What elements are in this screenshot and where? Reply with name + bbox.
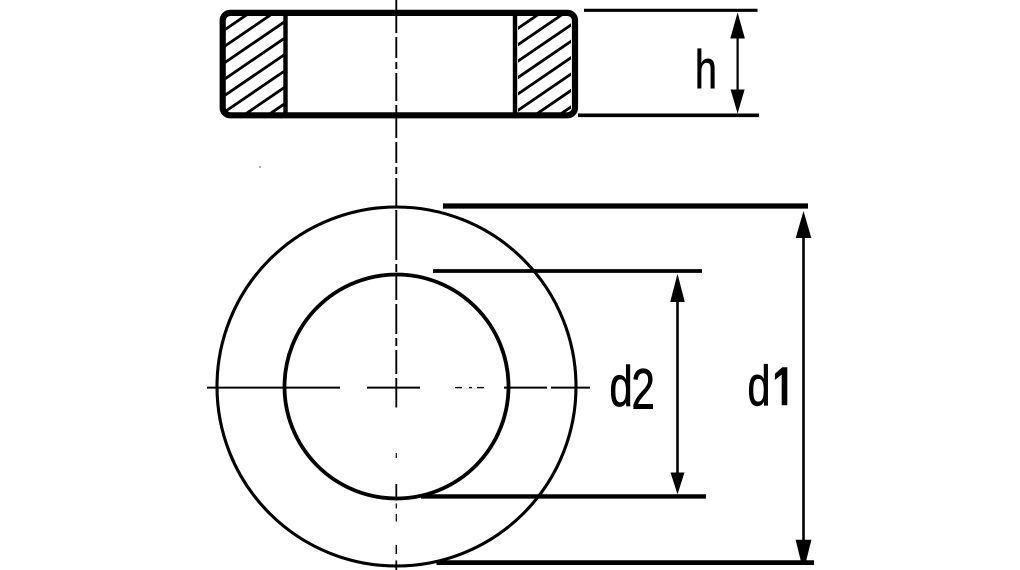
h arrow up [730, 13, 745, 39]
d1 dimension line [802, 230, 805, 545]
d1 arrow up [796, 211, 812, 238]
d1 top extension line [443, 203, 808, 208]
vertical centerline lower [395, 400, 397, 570]
section hatching right [512, 0, 577, 164]
left hatch divider [283, 14, 287, 114]
stray speck [259, 166, 261, 168]
h dimension bottom extension line [578, 114, 759, 118]
d2 arrow down [671, 473, 685, 495]
d2 dimension line [676, 290, 679, 480]
horizontal centerline [207, 387, 590, 389]
vertical centerline upper [395, 0, 397, 230]
d2 top extension line [433, 269, 702, 273]
d1 arrow down [796, 540, 812, 561]
label d2 letter d [611, 365, 630, 407]
d2 arrow up [670, 274, 685, 302]
h dimension line [736, 30, 738, 100]
vertical centerline middle [395, 230, 397, 400]
section hatching left [218, 0, 292, 166]
right hatch divider [513, 14, 517, 114]
outer circle [217, 207, 576, 566]
label h [698, 49, 715, 88]
washer section outline [223, 13, 575, 115]
label d1 digit 1 [775, 367, 787, 405]
h arrow down [731, 90, 745, 114]
label d1 letter d [749, 364, 768, 406]
inner circle [285, 275, 509, 499]
h dimension top extension line [584, 9, 758, 12]
d2 bottom extension line [421, 494, 706, 498]
d1 bottom extension line [437, 560, 815, 565]
label d2 digit 2 [634, 369, 653, 409]
